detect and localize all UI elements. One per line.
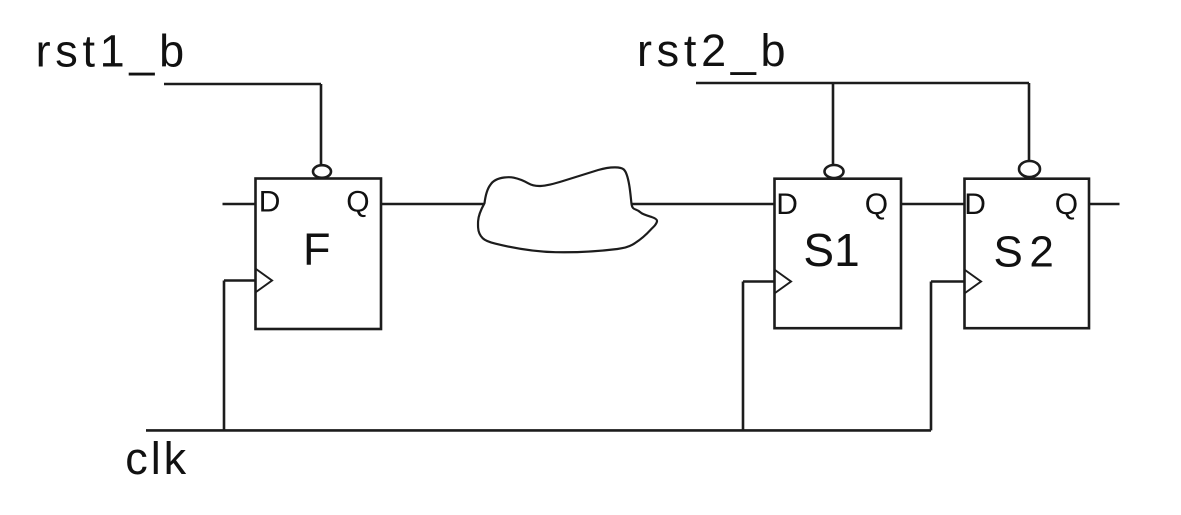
wire D input stub of F — [223, 203, 256, 206]
flip-flop S2 box — [965, 179, 1090, 329]
svg-text:F: F — [303, 224, 331, 275]
svg-text:Q: Q — [346, 186, 369, 219]
svg-text:D: D — [259, 186, 281, 219]
svg-text:rst2_b: rst2_b — [637, 25, 790, 76]
wire clk bus — [146, 429, 931, 432]
wire S1.Q to S2.D — [901, 203, 965, 206]
reset bubble on S2 — [1019, 161, 1040, 177]
clock triangle of S2 — [965, 270, 981, 293]
wire F.Q to S1.D (passes behind cloud) — [381, 203, 775, 206]
reset bubble on F (active-low) — [313, 165, 331, 178]
reset bubble on S1 — [825, 165, 844, 178]
svg-text:D: D — [776, 188, 798, 221]
flip-flop S1 box — [775, 179, 902, 329]
clock triangle of S1 — [775, 270, 791, 293]
flip-flop F box — [256, 179, 382, 330]
svg-text:S2: S2 — [994, 228, 1061, 277]
wire rst1_b vertical drop to F reset bubble — [320, 84, 323, 165]
cloud (combinational logic blob) — [478, 167, 657, 252]
svg-text:rst1_b: rst1_b — [36, 26, 189, 77]
wire clk stub into S1 — [743, 280, 774, 283]
svg-text:S1: S1 — [803, 224, 859, 276]
wire clk riser for S1 — [742, 282, 745, 431]
wire clk stub into S2 — [931, 280, 964, 283]
wire clk riser for F — [223, 281, 226, 431]
wire rst2_b drop to S2 bubble — [1028, 83, 1031, 161]
wire clk riser for S2 — [930, 282, 933, 431]
wire rst2_b horizontal — [696, 82, 1029, 85]
svg-text:clk: clk — [125, 433, 189, 484]
wire S2.Q output stub — [1089, 203, 1120, 206]
wire clk stub into F — [224, 279, 255, 282]
wire rst1_b horizontal — [164, 83, 321, 86]
svg-text:D: D — [964, 188, 986, 221]
svg-text:Q: Q — [865, 188, 888, 221]
wire rst2_b drop to S1 bubble — [832, 83, 835, 165]
svg-text:Q: Q — [1055, 188, 1078, 221]
clock triangle of F — [256, 269, 272, 292]
